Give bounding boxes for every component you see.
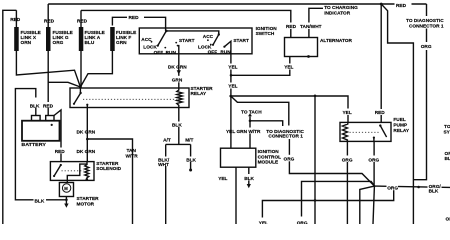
solenoid coil bottom dot xyxy=(86,178,89,181)
svg-text:RED: RED xyxy=(396,3,407,9)
svg-text:ORG: ORG xyxy=(284,157,295,163)
wire RED to diagnostic connector 1 xyxy=(426,4,428,16)
svg-text:MOTOR: MOTOR xyxy=(77,201,95,207)
svg-text:PUMP: PUMP xyxy=(393,123,407,129)
svg-text:BLK: BLK xyxy=(429,189,439,195)
wire RED bus 1 from link G xyxy=(48,3,426,5)
wire ICM BLK output xyxy=(248,167,250,184)
svg-text:ALTERNATOR: ALTERNATOR xyxy=(320,38,352,44)
junction dot mid feed xyxy=(314,95,317,98)
svg-text:BLK: BLK xyxy=(172,122,182,128)
svg-text:ACC: ACC xyxy=(203,34,214,40)
svg-text:YEL: YEL xyxy=(228,65,237,71)
wire fuel relay YEL input xyxy=(231,96,348,122)
wire link F to relay xyxy=(80,51,112,87)
svg-text:RED: RED xyxy=(77,19,88,25)
svg-text:YEL: YEL xyxy=(284,65,293,71)
svg-text:WHT: WHT xyxy=(158,162,169,168)
svg-text:ORG: ORG xyxy=(297,221,308,225)
svg-text:YEL: YEL xyxy=(259,221,268,225)
svg-text:TO TACH: TO TACH xyxy=(241,109,262,115)
wire fan down-left leg xyxy=(360,186,375,224)
svg-text:YEL GRN W/TR: YEL GRN W/TR xyxy=(226,129,261,135)
alternator box xyxy=(285,38,318,57)
wire fusible link X drop xyxy=(16,10,80,87)
svg-text:RED: RED xyxy=(44,19,55,25)
svg-text:ORG: ORG xyxy=(421,44,432,50)
fuel pump relay dashed link xyxy=(350,131,380,133)
junction dot YEL alternator tap xyxy=(230,74,233,77)
fan junction xyxy=(373,185,375,187)
junction dot TAN tap xyxy=(86,138,89,141)
solenoid pivot dot xyxy=(60,164,62,166)
svg-text:TAN: TAN xyxy=(127,148,137,154)
svg-text:START: START xyxy=(233,38,249,44)
fusible link F body xyxy=(110,27,115,51)
starter solenoid box xyxy=(50,162,94,181)
svg-text:SWITCH: SWITCH xyxy=(256,31,275,37)
svg-text:M/T: M/T xyxy=(185,137,193,143)
svg-text:BLK: BLK xyxy=(186,157,196,163)
fusible link A body xyxy=(79,27,84,51)
svg-text:ORG: ORG xyxy=(387,185,398,191)
svg-text:START: START xyxy=(179,38,195,44)
svg-text:RED: RED xyxy=(129,15,140,21)
svg-text:YEL: YEL xyxy=(343,110,352,116)
svg-text:DK GRN: DK GRN xyxy=(77,149,96,155)
wire link F to ignition switch xyxy=(112,17,165,31)
svg-text:ORG: ORG xyxy=(53,40,64,46)
wire fuel relay coil ORG down xyxy=(346,141,348,224)
alternator bottom terminal dot xyxy=(307,55,310,58)
svg-text:SY: SY xyxy=(444,129,450,135)
battery terminal left xyxy=(32,116,41,121)
svg-text:TO CHARGING: TO CHARGING xyxy=(324,5,358,11)
svg-text:TO: TO xyxy=(444,124,450,130)
wire W/TR to diagnostic text xyxy=(250,121,283,126)
svg-text:RELAY: RELAY xyxy=(393,128,409,134)
ignition switch c2 start output xyxy=(224,41,231,54)
wire ICM YEL output xyxy=(235,167,237,224)
ignition switch arm 2 pivot dot xyxy=(218,33,220,35)
wire RED bus 2 from link A to alternator xyxy=(81,10,291,37)
ignition switch arm 2 tip dot xyxy=(212,44,214,46)
svg-text:BL: BL xyxy=(445,156,450,162)
junction dot W/TR xyxy=(249,120,252,123)
wire mid vertical xyxy=(314,96,316,224)
svg-text:ORG: ORG xyxy=(342,157,353,163)
splice dot ORG to ORG/BLK xyxy=(417,186,420,189)
solenoid dashed link xyxy=(62,170,84,172)
wire BLK M/T leg xyxy=(190,144,192,169)
svg-text:BATTERY: BATTERY xyxy=(21,142,46,148)
svg-text:BLK: BLK xyxy=(30,103,40,109)
svg-text:GRN: GRN xyxy=(116,40,127,46)
ignition switch arm 2 xyxy=(213,31,219,45)
wire to diagnostic connector mid xyxy=(231,96,289,126)
svg-text:RUN: RUN xyxy=(220,49,231,55)
wire fan down leg xyxy=(373,186,374,224)
svg-text:TAN/WHT: TAN/WHT xyxy=(300,24,322,30)
fuel pump relay coil xyxy=(343,122,348,141)
svg-text:M: M xyxy=(64,186,68,191)
starter relay arm xyxy=(74,93,81,104)
solenoid coil xyxy=(85,162,89,180)
wire link G branch to relay xyxy=(48,82,80,87)
wire left frame feed xyxy=(3,10,17,224)
wire A/T M/T fork bar xyxy=(166,143,191,145)
wire starter relay BLK output xyxy=(178,108,180,145)
svg-text:A/T: A/T xyxy=(163,137,171,143)
svg-text:ORG: ORG xyxy=(368,157,379,163)
svg-text:OR: OR xyxy=(446,217,450,223)
solenoid arm xyxy=(54,165,61,176)
starter motor circle xyxy=(62,184,70,192)
svg-text:DK GRN: DK GRN xyxy=(168,65,187,71)
svg-text:GRN: GRN xyxy=(172,78,183,84)
splice arrow DK GRN to GRN xyxy=(177,70,181,74)
solenoid output hook xyxy=(67,164,87,182)
wire RED to fuel pump relay xyxy=(380,4,382,122)
starter relay coil xyxy=(177,88,183,108)
fuel pump relay contact dot xyxy=(373,137,375,139)
svg-text:OFF: OFF xyxy=(154,50,164,56)
wire RED branch step to bottom xyxy=(381,4,413,224)
solenoid arm tip dot xyxy=(53,175,55,177)
wire YEL ignition to ICM xyxy=(230,54,232,148)
battery plus dot xyxy=(51,124,53,126)
svg-text:DK GRN: DK GRN xyxy=(77,130,96,136)
svg-text:CONNECTOR 1: CONNECTOR 1 xyxy=(268,133,303,139)
svg-text:W/TR: W/TR xyxy=(126,154,139,160)
ignition switch arm 1 xyxy=(158,31,167,46)
wire battery BLK negative xyxy=(15,89,66,200)
fuel pump relay switch arm xyxy=(380,126,386,138)
fusible link X body xyxy=(14,27,19,51)
label backgrounds xyxy=(29,2,442,204)
battery box xyxy=(22,121,60,141)
M/T leg end dot xyxy=(189,169,192,172)
wire BLK/WHT A/T leg xyxy=(165,144,167,224)
starter relay contact dot xyxy=(86,104,88,106)
starter relay box xyxy=(70,88,189,108)
starter motor box xyxy=(59,183,73,197)
fuel pump relay switch pivot dot xyxy=(379,124,381,126)
wire DK GRN solenoid feed xyxy=(86,105,88,162)
svg-text:ORN: ORN xyxy=(21,40,32,46)
starter relay pivot stub xyxy=(79,87,81,93)
svg-text:RED: RED xyxy=(43,103,54,109)
wire W/TR into ICM xyxy=(249,121,251,148)
wire battery RED to solenoid xyxy=(54,110,61,162)
svg-text:BLU: BLU xyxy=(85,40,95,46)
svg-text:RED: RED xyxy=(10,17,21,23)
svg-text:ACC: ACC xyxy=(141,37,152,43)
motor junction dot xyxy=(65,199,68,202)
junction dot bottom mid xyxy=(314,199,317,202)
ignition switch c2 position dots xyxy=(207,39,225,48)
ignition switch arm 1 pivot dot xyxy=(165,30,168,33)
wire ORG diag to fan xyxy=(289,139,374,186)
ICM box xyxy=(221,148,256,167)
wire alternator YEL output xyxy=(231,57,290,76)
svg-text:RED: RED xyxy=(375,110,386,116)
svg-text:OFF: OFF xyxy=(208,49,218,55)
svg-text:RELAY: RELAY xyxy=(191,91,207,97)
svg-text:IGNITION: IGNITION xyxy=(258,149,280,155)
svg-text:YEL: YEL xyxy=(228,84,237,90)
wire ORG diagnostic down xyxy=(413,29,426,180)
svg-text:LOCK: LOCK xyxy=(143,45,157,51)
wire motor to ground xyxy=(65,197,67,204)
fusible link G body xyxy=(46,27,51,51)
svg-text:SOLENOID: SOLENOID xyxy=(96,166,121,172)
svg-text:RUN: RUN xyxy=(166,50,177,56)
junction dot YEL fuel relay tap xyxy=(229,95,232,98)
ignition switch arm 1 tip dot xyxy=(157,45,159,47)
ignition switch c1 run output xyxy=(178,46,179,89)
wire link A vertical xyxy=(80,10,82,87)
wire fan to ORG/BLK right edge xyxy=(374,186,450,187)
junction dot RED bus top right xyxy=(380,3,383,6)
ground arrow xyxy=(64,204,68,208)
wire ORG bottom branch xyxy=(302,181,375,216)
wire TO TACH arrow xyxy=(249,116,251,121)
svg-text:BLK: BLK xyxy=(244,176,254,182)
starter relay pivot dot xyxy=(79,92,81,94)
ignition switch c1 position dots xyxy=(151,41,179,49)
wire TAN W/TR xyxy=(87,139,132,224)
svg-text:YEL: YEL xyxy=(218,176,227,182)
svg-text:RED: RED xyxy=(55,149,66,155)
convergence dot P xyxy=(79,86,82,89)
svg-text:INDICATOR: INDICATOR xyxy=(324,11,351,17)
ignition switch box xyxy=(139,28,252,54)
wire YEL bottom corner xyxy=(262,188,393,218)
fuel pump relay box xyxy=(340,122,391,141)
svg-text:BLK: BLK xyxy=(35,199,45,205)
battery terminal right xyxy=(46,116,54,121)
svg-text:STARTER: STARTER xyxy=(77,196,100,202)
svg-text:CONNECTOR 1: CONNECTOR 1 xyxy=(409,24,444,30)
ignition switch feed rail xyxy=(166,31,219,35)
svg-text:CONTROL: CONTROL xyxy=(258,154,282,160)
starter relay dashed link xyxy=(83,98,177,100)
starter relay arm tip dot xyxy=(73,103,75,105)
svg-text:FUEL: FUEL xyxy=(393,117,406,123)
wire fuel relay output ORG xyxy=(373,138,375,186)
svg-text:TO DIAGNOSTIC: TO DIAGNOSTIC xyxy=(406,18,444,24)
svg-text:RED: RED xyxy=(286,24,297,30)
svg-text:MODULE: MODULE xyxy=(258,160,279,166)
wire link G vertical to battery xyxy=(47,4,49,116)
wire alternator TAN/WHT to charging indicator xyxy=(309,8,323,37)
